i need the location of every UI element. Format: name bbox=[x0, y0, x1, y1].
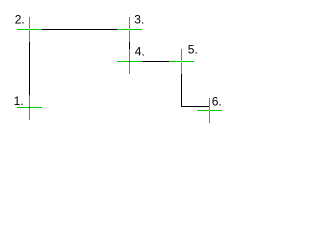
svg-text:6.: 6. bbox=[212, 95, 222, 109]
node 4 center dot bbox=[129, 61, 130, 62]
node 5 center dot bbox=[181, 61, 182, 62]
wire from node 3 to node 4 bbox=[129, 29, 131, 62]
wire from node 2 to node 1 bbox=[29, 29, 31, 108]
svg-text:2.: 2. bbox=[15, 13, 25, 27]
wire from node 5 down to corner bbox=[181, 61, 183, 107]
node 6 marker cross bbox=[197, 98, 222, 123]
svg-text:4.: 4. bbox=[135, 45, 145, 59]
node 5 marker cross bbox=[169, 49, 194, 74]
svg-text:1.: 1. bbox=[14, 94, 24, 108]
wire from node 2 to node 3 bbox=[29, 29, 130, 31]
node 3 center dot bbox=[129, 29, 130, 30]
node 6 center dot bbox=[209, 110, 210, 111]
wire from corner to node 6 bbox=[181, 106, 210, 108]
node 3 marker cross bbox=[117, 17, 142, 42]
wire from node 4 to node 5 bbox=[129, 61, 182, 63]
node 1 marker cross bbox=[17, 95, 42, 120]
node 4 marker cross bbox=[117, 49, 142, 74]
svg-text:5.: 5. bbox=[188, 42, 198, 56]
node 2 center dot bbox=[29, 29, 30, 30]
node 2 marker cross bbox=[17, 17, 42, 42]
svg-text:3.: 3. bbox=[134, 13, 144, 27]
node 1 center dot bbox=[29, 107, 30, 108]
